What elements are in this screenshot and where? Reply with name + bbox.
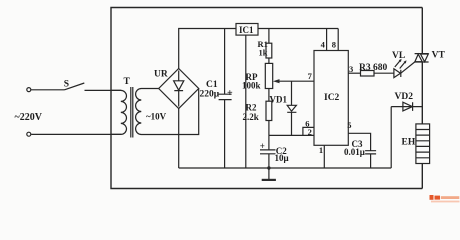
wire: mains loop top/left/bottom border: [111, 8, 422, 189]
triac VT: [415, 54, 429, 62]
RP wiper arrow / wire to pin7: [273, 79, 314, 83]
transformer core: [131, 87, 133, 138]
svg-text:3: 3: [349, 64, 353, 74]
node: junction C2/ground rail: [267, 166, 270, 169]
op-amp IC1 regulator box: [236, 24, 258, 36]
svg-text:4: 4: [321, 40, 326, 50]
wire: RP to R2: [268, 89, 270, 102]
potentiometer RP: [265, 63, 272, 88]
svg-text:VD2: VD2: [395, 92, 414, 102]
wire: IC1 ground lead: [245, 35, 247, 168]
pin 3 wire: [348, 72, 360, 74]
pin 1 wire: [323, 145, 325, 168]
capacitor C2: [260, 135, 276, 168]
resistor R3: [361, 71, 375, 77]
svg-text:EH: EH: [402, 137, 416, 147]
pin 4 wire: [326, 29, 328, 51]
svg-text:R3 680: R3 680: [359, 63, 387, 73]
svg-text:+: +: [260, 141, 265, 151]
svg-text:0.01μ: 0.01μ: [344, 147, 365, 157]
svg-text:2.2k: 2.2k: [243, 112, 259, 122]
wire: ground rail: [179, 167, 392, 169]
svg-text:VL: VL: [392, 51, 405, 61]
wire: right border lower (EH to bottom): [421, 164, 423, 189]
bridge inner diode: [174, 71, 184, 107]
svg-text:IC1: IC1: [239, 25, 254, 35]
wire: right border middle (VT to EH): [421, 62, 423, 124]
wire: node line to pin2: [269, 134, 314, 136]
svg-text:8: 8: [332, 40, 336, 50]
LED VL: [394, 69, 401, 78]
LED VL arrows: [395, 59, 407, 69]
diode VD2: [391, 102, 422, 168]
svg-text:~220V: ~220V: [15, 112, 43, 123]
wire: VL to triac gate: [401, 62, 415, 73]
op-amp IC2 555 box: [314, 51, 348, 146]
svg-text:VT: VT: [432, 50, 446, 60]
wire: bridge top to +V rail: [179, 29, 236, 69]
svg-text:IC2: IC2: [324, 93, 340, 103]
watermark logo: [430, 195, 460, 202]
wire: terminal to switch: [31, 89, 65, 91]
svg-text:10μ: 10μ: [275, 153, 289, 163]
svg-text:2: 2: [308, 127, 312, 137]
transformer T primary winding: [112, 90, 127, 134]
wire: pin6 step: [303, 127, 314, 135]
node: mains terminal bottom: [27, 132, 31, 136]
svg-text:100k: 100k: [242, 81, 261, 91]
svg-text:+: +: [227, 88, 233, 99]
switch S: [65, 83, 85, 90]
wire: bottom terminal to transformer primary: [31, 133, 121, 135]
diode VD1: [287, 81, 296, 135]
svg-text:1k: 1k: [259, 48, 268, 58]
wire: bridge bottom to ground rail: [178, 109, 180, 169]
wire: switch to transformer primary: [85, 89, 122, 91]
wire: R2 to node: [268, 121, 270, 136]
node: mains terminal top: [27, 88, 31, 92]
resistor R1: [266, 29, 272, 64]
svg-text:7: 7: [308, 71, 313, 81]
heater EH: [416, 124, 430, 164]
svg-text:T: T: [124, 77, 131, 87]
bridge rectifier UR diamond: [159, 69, 199, 109]
svg-text:R2: R2: [246, 103, 257, 113]
wire: right border upper (to VT): [421, 8, 423, 54]
transformer secondary winding: [136, 89, 199, 135]
ground: [262, 168, 276, 180]
svg-text:1: 1: [319, 145, 323, 155]
svg-text:VD1: VD1: [270, 94, 288, 104]
pin 8 wire: [337, 29, 339, 51]
svg-text:UR: UR: [154, 70, 168, 80]
wire: +V rail from IC1 to pin8 corner: [258, 28, 338, 30]
resistor R2: [266, 101, 272, 120]
svg-text:S: S: [64, 80, 69, 90]
svg-text:220μ: 220μ: [200, 89, 220, 99]
svg-text:~10V: ~10V: [146, 112, 167, 122]
svg-text:5: 5: [347, 120, 351, 130]
wire: R3 to VL: [374, 72, 394, 74]
capacitor C3 and pin 5 wire: [348, 133, 376, 168]
capacitor C1: [219, 29, 232, 169]
